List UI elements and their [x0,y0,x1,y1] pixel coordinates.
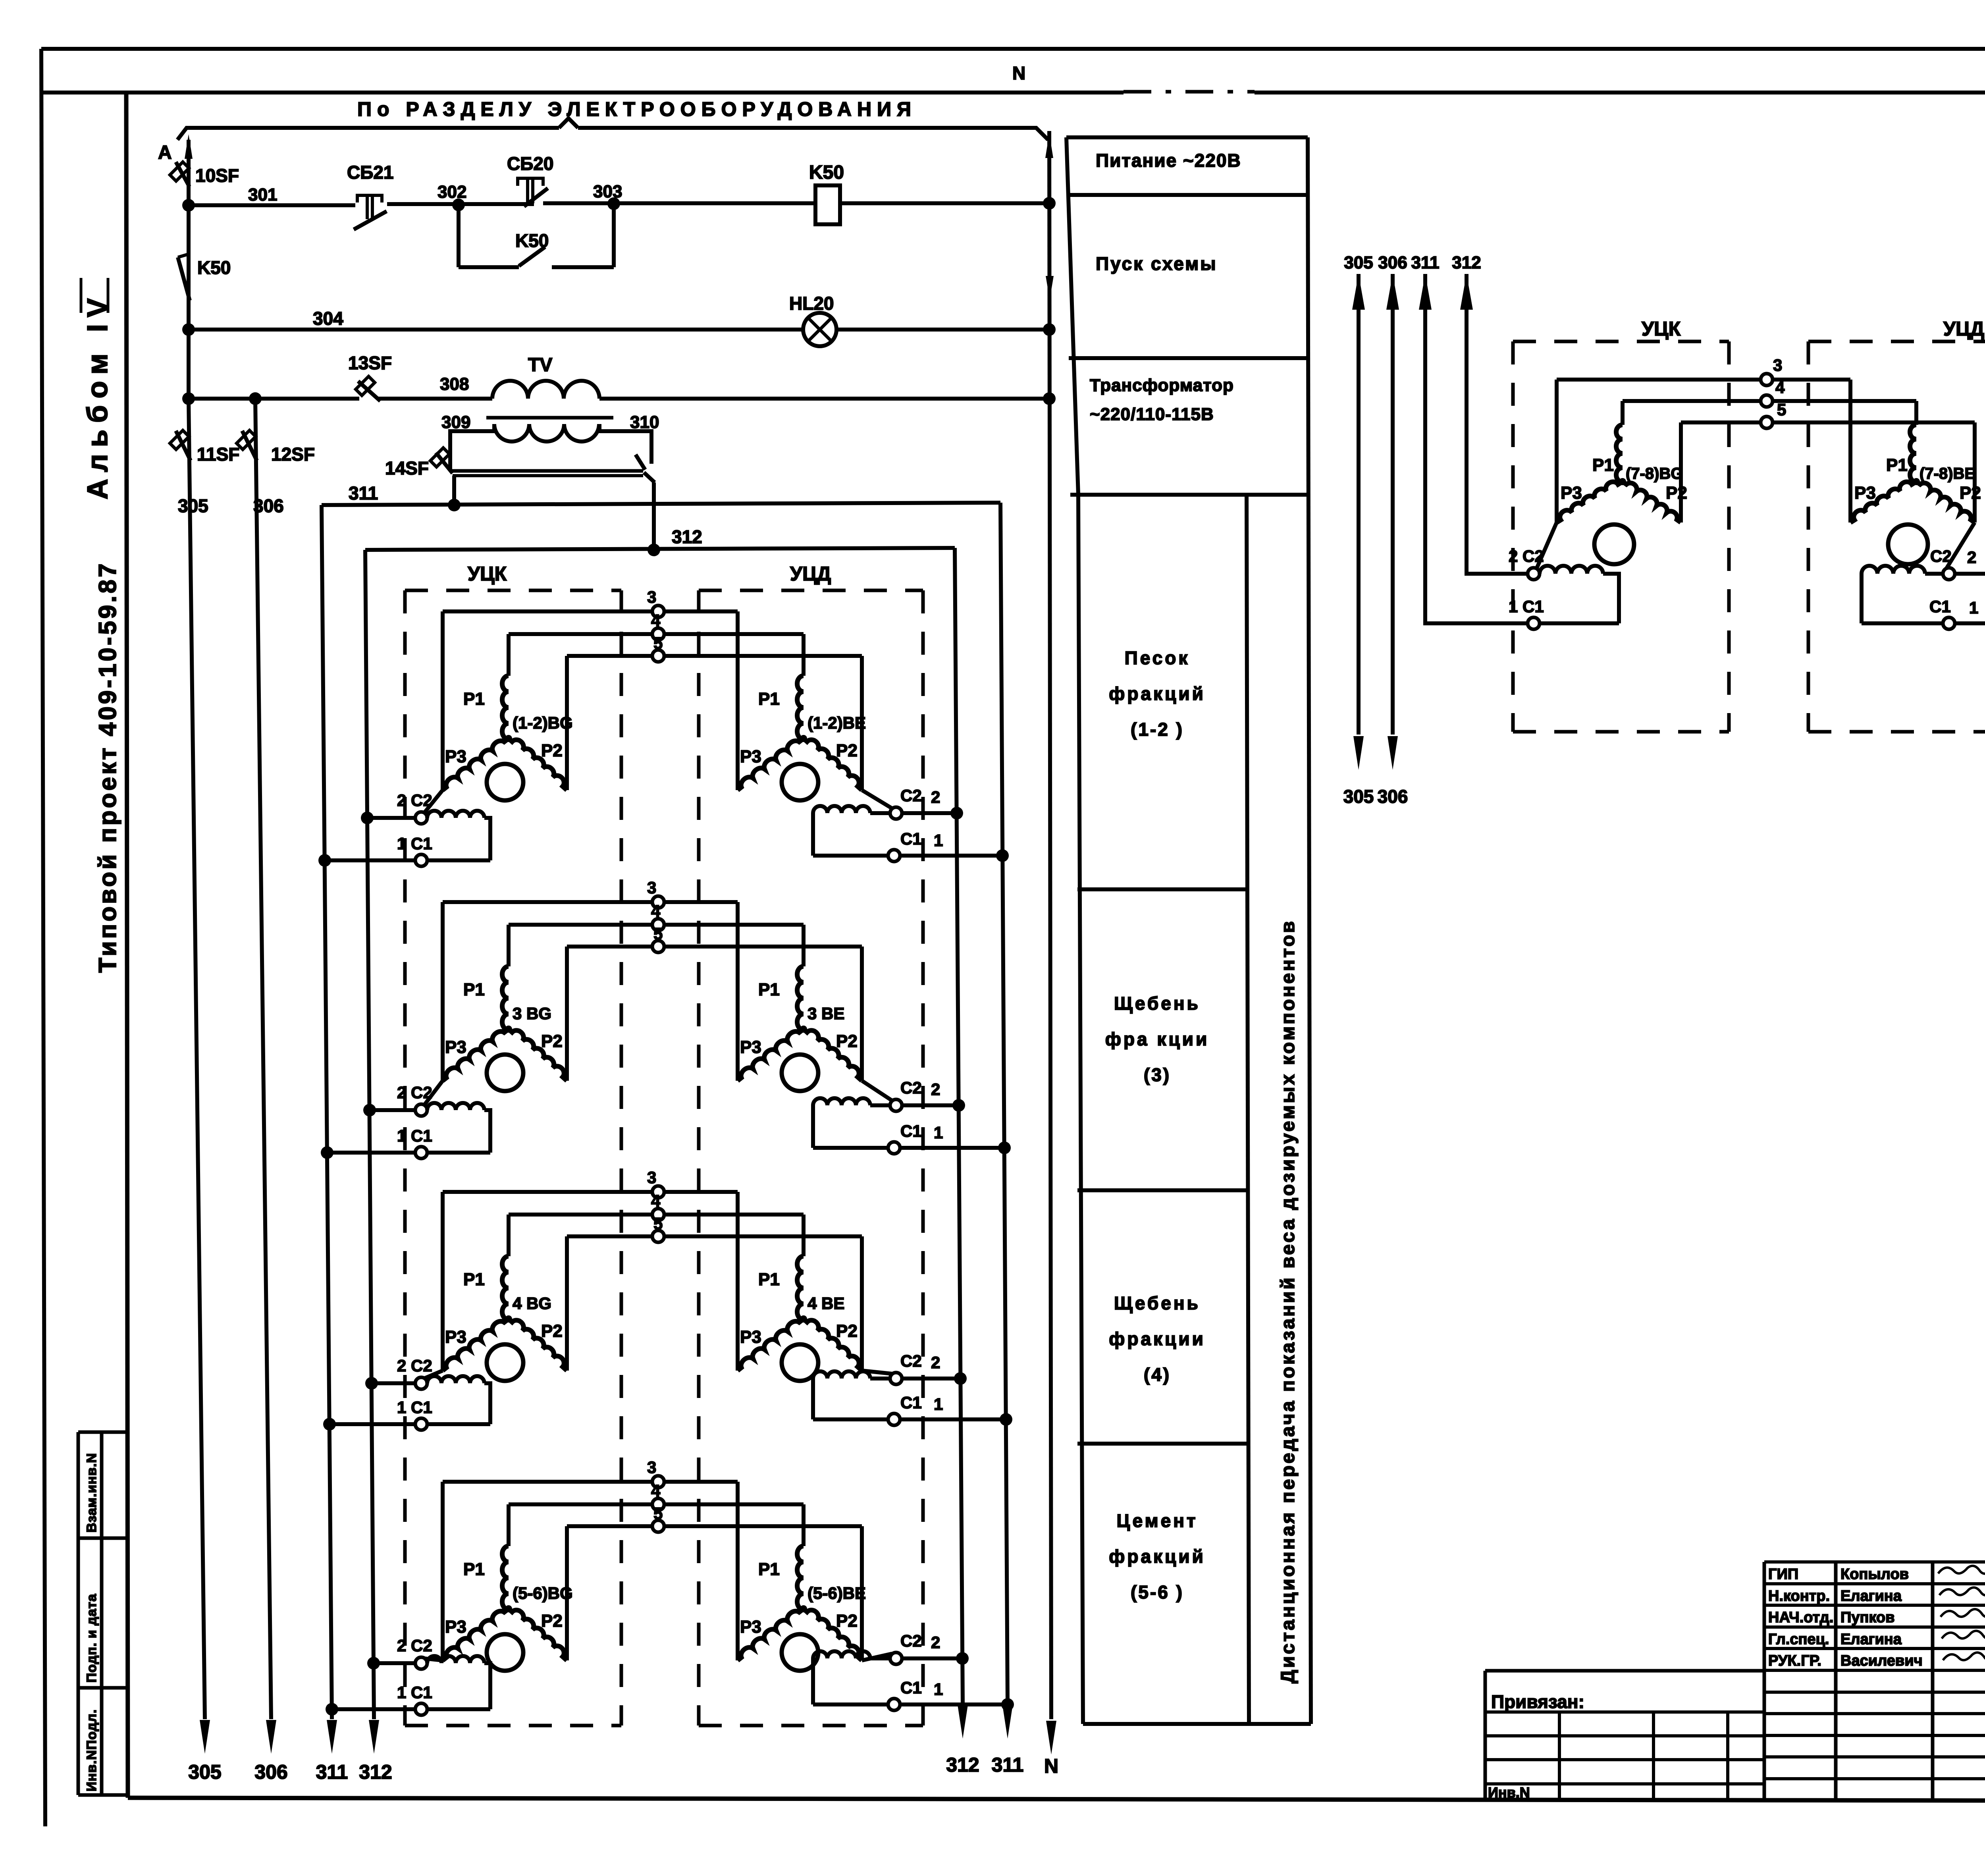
svg-text:Цемент: Цемент [1116,1510,1198,1531]
svg-text:4: 4 [651,611,661,630]
svg-text:C1: C1 [900,1122,922,1140]
svg-text:ГИП: ГИП [1768,1566,1798,1583]
svg-text:312: 312 [946,1754,979,1776]
svg-text:2 C2: 2 C2 [397,791,432,810]
svg-text:C1: C1 [900,829,922,848]
svg-text:УЦД: УЦД [790,563,831,585]
svg-text:311: 311 [992,1754,1024,1776]
svg-text:A: A [158,142,172,163]
svg-text:4 BG: 4 BG [513,1294,551,1313]
svg-text:C2: C2 [900,786,922,805]
svg-text:(3): (3) [1144,1064,1171,1085]
svg-text:P2: P2 [836,1321,858,1341]
svg-text:C2: C2 [900,1631,922,1650]
svg-text:3: 3 [647,1168,656,1187]
svg-text:10SF: 10SF [195,165,239,186]
svg-text:Василевич: Василевич [1840,1652,1923,1669]
svg-text:311: 311 [349,483,378,503]
svg-text:306: 306 [1378,253,1407,272]
svg-text:308: 308 [440,374,469,394]
svg-text:1: 1 [934,831,943,850]
svg-text:K50: K50 [515,230,549,251]
svg-text:P3: P3 [740,1037,761,1057]
svg-text:4: 4 [651,1192,661,1210]
svg-text:306: 306 [254,1761,287,1783]
svg-text:P2: P2 [541,1321,563,1341]
svg-text:(5-6 ): (5-6 ) [1131,1582,1184,1602]
svg-text:P1: P1 [758,689,780,709]
svg-text:Привязан:: Привязан: [1491,1691,1584,1712]
svg-text:C1: C1 [900,1393,922,1412]
svg-text:2: 2 [931,1353,940,1372]
svg-text:P2: P2 [836,1611,858,1631]
svg-text:(1-2 ): (1-2 ) [1131,719,1184,740]
svg-text:310: 310 [630,413,659,432]
svg-text:Копылов: Копылов [1840,1566,1909,1583]
svg-text:1 C1: 1 C1 [397,1683,432,1702]
svg-text:3: 3 [647,878,656,897]
svg-text:СБ20: СБ20 [507,153,553,174]
svg-text:P1: P1 [463,980,485,999]
svg-text:2 C2: 2 C2 [1509,547,1544,565]
svg-text:P3: P3 [445,1037,466,1057]
svg-text:N: N [1044,1755,1058,1777]
svg-text:Альбом IV: Альбом IV [82,291,114,499]
svg-text:305: 305 [188,1761,221,1783]
svg-text:305: 305 [1344,253,1373,272]
svg-text:Пуск схемы: Пуск схемы [1096,253,1218,274]
svg-text:1: 1 [934,1395,943,1413]
svg-text:2: 2 [1967,548,1976,567]
svg-text:P1: P1 [758,1270,780,1289]
svg-text:СБ21: СБ21 [347,162,393,183]
svg-text:5: 5 [653,1504,663,1523]
svg-text:P3: P3 [445,1617,466,1637]
svg-text:P3: P3 [1561,483,1582,503]
svg-text:C1: C1 [900,1678,922,1697]
svg-text:Дистанционная передача показ: Дистанционная передача показаний веса до… [1278,919,1299,1683]
svg-text:1: 1 [934,1123,943,1142]
svg-text:14SF: 14SF [385,458,429,478]
svg-text:3: 3 [647,588,656,606]
svg-text:P2: P2 [836,1032,858,1051]
svg-text:P3: P3 [1854,483,1876,503]
svg-text:2 C2: 2 C2 [397,1356,432,1375]
svg-text:УЦК: УЦК [1642,318,1681,340]
svg-text:4: 4 [651,902,661,920]
svg-text:фракций: фракций [1109,683,1206,704]
svg-text:306: 306 [253,496,284,516]
svg-text:P2: P2 [541,1032,563,1051]
svg-text:РУК.ГР.: РУК.ГР. [1768,1652,1821,1669]
svg-text:Взам.инв.N: Взам.инв.N [84,1453,99,1533]
svg-text:P2: P2 [836,741,858,760]
svg-text:Щебень: Щебень [1114,993,1201,1014]
svg-text:1 C1: 1 C1 [397,834,432,853]
svg-text:11SF: 11SF [197,444,239,465]
svg-text:5: 5 [653,634,663,652]
svg-text:1 C1: 1 C1 [397,1398,432,1417]
svg-text:Инв.NПодл.: Инв.NПодл. [84,1709,99,1791]
svg-text:(5-6)BE: (5-6)BE [807,1584,866,1602]
svg-text:302: 302 [437,182,466,202]
svg-text:(4): (4) [1144,1364,1171,1385]
svg-text:фракций: фракций [1109,1546,1206,1567]
svg-text:P2: P2 [541,1611,563,1631]
svg-text:По РАЗДЕЛУ ЭЛЕКТРООБОРУДОВАН: По РАЗДЕЛУ ЭЛЕКТРООБОРУДОВАНИЯ [357,98,917,120]
svg-text:Песок: Песок [1125,648,1190,668]
svg-text:Елагина: Елагина [1840,1631,1902,1648]
svg-text:Инв.N: Инв.N [1488,1784,1530,1801]
svg-text:1 C1: 1 C1 [1509,597,1544,616]
svg-text:1: 1 [1969,598,1978,617]
svg-text:P2: P2 [541,741,563,760]
svg-text:Трансформатор: Трансформатор [1090,376,1234,395]
svg-text:309: 309 [441,413,470,432]
svg-text:P3: P3 [740,1617,761,1637]
svg-text:4: 4 [651,1481,661,1500]
svg-text:P3: P3 [740,747,761,766]
svg-text:P1: P1 [758,980,780,999]
svg-text:N: N [1012,63,1025,83]
svg-text:Щебень: Щебень [1114,1293,1201,1313]
svg-text:2: 2 [931,1633,940,1652]
svg-text:~220/110-115B: ~220/110-115B [1090,405,1214,424]
svg-text:HL20: HL20 [789,293,834,314]
svg-text:P3: P3 [740,1327,761,1347]
svg-text:НАЧ.отд.: НАЧ.отд. [1768,1609,1833,1626]
svg-text:P1: P1 [758,1560,780,1579]
svg-text:P1: P1 [1886,455,1908,475]
svg-text:306: 306 [1378,786,1408,807]
svg-text:305: 305 [178,496,208,516]
svg-text:P2: P2 [1960,483,1981,503]
svg-text:12SF: 12SF [271,444,315,465]
svg-text:P3: P3 [445,747,466,766]
svg-text:(5-6)BG: (5-6)BG [513,1584,573,1602]
svg-text:4 BE: 4 BE [807,1294,844,1313]
svg-text:2 C2: 2 C2 [397,1083,432,1102]
svg-text:фракции: фракции [1109,1328,1206,1349]
svg-text:305: 305 [1343,786,1374,807]
svg-text:(1-2)BE: (1-2)BE [807,713,866,732]
svg-text:13SF: 13SF [348,353,392,373]
svg-text:(1-2)BG: (1-2)BG [513,713,573,732]
svg-text:311: 311 [1411,253,1440,272]
svg-text:2: 2 [931,788,940,806]
svg-text:(7-8)BG: (7-8)BG [1626,465,1683,482]
svg-text:5: 5 [653,1214,663,1233]
svg-text:2 C2: 2 C2 [397,1636,432,1655]
svg-text:P1: P1 [463,1270,485,1289]
svg-text:фра кции: фра кции [1105,1029,1210,1049]
svg-text:3: 3 [647,1458,656,1477]
svg-text:УЦК: УЦК [468,563,507,585]
svg-text:Типовой проект 409-10-59.87: Типовой проект 409-10-59.87 [94,561,121,973]
svg-text:C2: C2 [900,1352,922,1370]
svg-text:312: 312 [359,1761,392,1783]
svg-text:C1: C1 [1929,597,1951,616]
svg-text:Н.контр.: Н.контр. [1768,1588,1830,1604]
svg-text:P1: P1 [463,689,485,709]
svg-text:303: 303 [593,182,622,201]
svg-text:Подп. и дата: Подп. и дата [84,1594,99,1683]
svg-text:C2: C2 [1930,547,1952,565]
svg-text:P2: P2 [1666,483,1687,503]
svg-text:K50: K50 [809,162,844,183]
svg-text:3 BG: 3 BG [513,1004,551,1023]
svg-text:TV: TV [528,355,552,376]
svg-text:P3: P3 [445,1327,466,1347]
svg-text:301: 301 [248,185,277,204]
svg-text:УЦД: УЦД [1943,318,1984,340]
svg-text:P1: P1 [463,1560,485,1579]
svg-text:1 C1: 1 C1 [397,1126,432,1145]
svg-text:5: 5 [653,924,663,943]
svg-text:Гл.спец.: Гл.спец. [1768,1631,1829,1648]
svg-text:Пупков: Пупков [1840,1609,1895,1626]
svg-text:C2: C2 [900,1078,922,1097]
svg-text:304: 304 [313,308,343,329]
svg-text:3: 3 [1773,356,1782,374]
svg-text:3 BE: 3 BE [807,1004,844,1023]
svg-text:(7-8)BE: (7-8)BE [1919,465,1975,482]
svg-text:311: 311 [316,1761,348,1783]
svg-text:4: 4 [1775,378,1785,397]
svg-text:312: 312 [1452,253,1481,272]
svg-text:Питание ~220B: Питание ~220B [1096,150,1241,171]
svg-text:5: 5 [1777,400,1786,419]
svg-text:312: 312 [672,526,702,547]
svg-text:1: 1 [934,1680,943,1699]
svg-text:K50: K50 [197,257,231,278]
svg-text:P1: P1 [1592,455,1614,475]
svg-text:2: 2 [931,1080,940,1099]
svg-text:Елагина: Елагина [1840,1588,1902,1604]
